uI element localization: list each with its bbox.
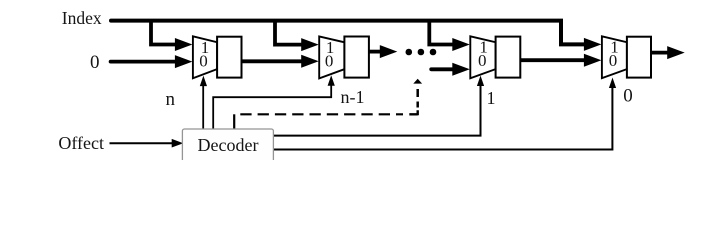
svg-text:n-1: n-1 [341, 87, 365, 107]
wire register R4 final output [651, 51, 670, 55]
svg-text:0: 0 [478, 51, 487, 70]
svg-text:Offect: Offect [58, 133, 104, 153]
wire Offect to decoder [110, 142, 173, 144]
svg-text:1: 1 [487, 88, 496, 108]
register R3 [496, 37, 521, 78]
wire dashed select stub from decoder [233, 114, 235, 129]
register R4 [627, 37, 651, 78]
wire register R1 output to mux U2 input 0 [241, 59, 303, 63]
decoder U5 [182, 129, 273, 163]
wire 0 feed into mux U1 input 0 [111, 60, 177, 64]
svg-text:Index: Index [62, 8, 102, 28]
svg-text:0: 0 [609, 51, 618, 70]
svg-text:0: 0 [199, 51, 208, 70]
svg-text:n: n [166, 89, 176, 110]
wire dots to mux U3 input 0 [431, 67, 454, 71]
wire Index bus trunk with final drop to mux U4 [111, 21, 586, 45]
wire register R3 output to mux U4 input 0 [520, 58, 586, 62]
wire dashed select corner stub [409, 110, 417, 115]
svg-text:0: 0 [90, 52, 100, 73]
wire index drop to mux U1 input 1 [151, 19, 177, 45]
wire index drop to mux U2 input 1 [275, 19, 303, 45]
wire select S3 decoder to mux U3 [273, 85, 480, 135]
wire dashed select horizontal [240, 113, 403, 115]
svg-text:0: 0 [623, 86, 633, 107]
mux U4 [602, 36, 627, 78]
mux U2 [319, 36, 344, 78]
register R1 [217, 37, 241, 78]
arrowhead dashed select [413, 79, 422, 84]
svg-text:0: 0 [325, 52, 334, 71]
wire select S2 decoder to mux U2 [213, 85, 331, 129]
register R2 [344, 37, 369, 78]
node ellipsis dots [406, 49, 413, 56]
svg-text:Decoder: Decoder [198, 135, 259, 155]
wire index drop to mux U3 input 1 [429, 19, 454, 45]
mux U1 [193, 36, 217, 78]
mux U3 [470, 36, 495, 78]
wire register R2 output to dots [368, 50, 382, 54]
wire select S1 decoder to mux U1 [202, 86, 204, 130]
wire dashed select vertical [416, 89, 419, 97]
wire select S4 decoder to mux U4 [273, 87, 612, 149]
arrowhead into mux U4 input 1 [584, 38, 602, 51]
